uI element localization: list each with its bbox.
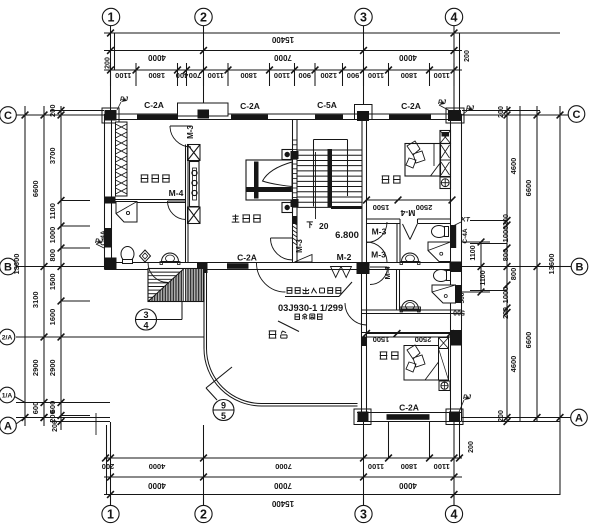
grid line B left [16,266,104,268]
extension stubs left inner chain [61,201,90,416]
svg-text:1100: 1100 [115,71,131,80]
svg-text:1800: 1800 [401,462,418,471]
svg-text:2: 2 [200,10,207,24]
grid line A right [462,418,571,422]
door M-3 dressing top [170,126,191,147]
door M-3 to upper bath [367,222,388,243]
svg-text:200: 200 [498,410,505,422]
svg-text:3100: 3100 [31,291,40,308]
svg-text:800: 800 [48,249,57,262]
grid line A left [16,418,110,422]
svg-text:200: 200 [503,307,510,319]
wall left exterior (grid 1) [105,114,112,270]
column grid3-B [357,263,370,274]
svg-text:1000: 1000 [501,287,510,304]
stair center handrail [328,149,363,209]
door M-3 master to hall [271,238,293,260]
label C-4A left [100,230,107,245]
pilaster stair wall mid [293,216,298,224]
dimension texts right inner chain [498,106,518,422]
window C-2A top-2 [231,115,268,119]
svg-text:4000: 4000 [148,53,166,62]
stair railing outline [314,140,348,207]
grid extension lines bottom [96,413,460,505]
column grid4-B [450,262,462,273]
column grid3-A [358,412,369,423]
svg-text:A: A [575,413,583,425]
grid line C left [16,111,104,116]
detail bubble 3/4 with leader [136,302,183,331]
wall lower bedroom north [362,333,462,338]
wall top exterior (grid C) [105,114,462,120]
svg-text:700: 700 [189,71,202,80]
pilaster bedroom NW [362,337,367,347]
svg-text:6600: 6600 [31,180,40,197]
door M-3 to upper bed2 [367,242,388,263]
grid bubble 2 bottom [195,495,212,523]
svg-text:1: 1 [107,507,114,521]
hatch stair west wall [293,140,298,245]
svg-text:6600: 6600 [524,180,533,197]
door terrace to lower lobby [345,303,367,325]
svg-text:C-2A: C-2A [144,100,164,110]
column grid4-C [448,110,461,121]
svg-text:800: 800 [501,249,510,262]
dimension ticks right inner chain [504,107,511,425]
closet unit between flues [190,162,200,207]
shower lower bath [432,285,456,303]
grid bubble 2 top [195,8,212,25]
svg-text:200: 200 [468,441,475,453]
dimension texts top small row [107,63,457,86]
door M-4 lower bath [370,267,388,285]
flag PJ top-right-2 [462,105,474,115]
svg-text:1500: 1500 [373,335,390,344]
grid line 1/A left [16,402,110,404]
dimension texts left middle chain [31,112,47,421]
svg-text:1800: 1800 [148,71,165,80]
svg-text:1800: 1800 [401,71,418,80]
svg-text:1100: 1100 [368,71,384,80]
svg-text:M-2: M-2 [337,252,352,262]
toilet lower bath right [434,270,451,282]
grid line 2/A left [16,336,204,338]
wardrobe hatched [116,122,128,196]
svg-text:9: 9 [221,401,226,411]
wall west of right-lower block [362,270,367,413]
grid bubble 3 top [355,8,372,25]
svg-text:M-4: M-4 [400,208,415,218]
svg-text:7000: 7000 [274,53,292,62]
svg-text:200: 200 [52,420,59,432]
label M-3 bath upper [372,227,387,237]
flue duct upper (X box) [188,145,201,161]
window C-5A top [315,115,343,119]
svg-text:C: C [573,109,581,121]
svg-text:A: A [4,421,12,433]
grid bubble 4 top [445,8,462,25]
label bedroom lower right [380,352,399,359]
nightstand master upper [282,150,293,160]
grid line 1 extension top [111,26,115,114]
svg-text:1600: 1600 [48,309,57,326]
svg-text:4: 4 [143,321,148,331]
grid bubble C left [0,107,16,124]
label C-2A B wall [237,253,257,263]
column grid4-A [449,412,460,423]
terrace parapet curved edge [204,270,358,406]
label M-4 upper bath [400,208,415,218]
bed master [246,160,292,200]
window C-2A top-3 [389,115,431,119]
column grid1-B [105,258,117,270]
svg-text:13600: 13600 [12,254,21,275]
label KT right wall [453,217,471,227]
svg-text:3: 3 [360,507,367,521]
svg-text:1100: 1100 [470,245,477,260]
window C-2A bottom [387,414,430,420]
svg-text:200: 200 [48,104,57,117]
dimension 500 right wall [459,292,466,303]
svg-text:20: 20 [319,221,329,231]
pilaster left wall at bath [105,197,116,204]
cabinet upper-right [440,144,451,177]
svg-text:800: 800 [509,268,518,281]
grid bubble C right [568,106,585,123]
pilaster stair wall lower [291,199,299,207]
grid bubble 2/A left [0,329,15,345]
wall grid B horizontal [105,263,462,270]
door leaf hall-terrace [295,255,313,263]
svg-text:900: 900 [298,71,311,80]
svg-text:4600: 4600 [509,158,518,175]
label dressing room [141,175,170,182]
bay box around grid2-C [178,103,229,118]
svg-text:C-2A: C-2A [401,101,421,111]
flag PJ left-bath [95,238,104,248]
svg-text:1100: 1100 [274,71,290,80]
grid line B right [462,266,571,268]
dimension 200 top ends [105,50,472,69]
svg-text:1/A: 1/A [2,393,13,400]
svg-text:1100: 1100 [480,270,487,285]
sink lower-left bath [160,253,180,265]
svg-text:1500: 1500 [48,273,57,290]
wall dressing-bath partition [105,200,186,203]
shower upper bath [428,242,451,262]
svg-text:KT: KT [461,217,471,224]
dimension text 15400 top [107,30,457,44]
door M-4 upper bath [403,224,418,240]
svg-text:1500: 1500 [373,203,390,212]
label bedroom upper right [382,176,401,183]
dimension texts bottom middle row [107,474,457,490]
grid line 4 extension top [454,26,460,114]
svg-text:3700: 3700 [48,147,57,164]
column grid3-C [357,111,369,121]
svg-text:C-2A: C-2A [240,101,260,111]
door M-4 dressing-bath [168,201,187,220]
svg-text:2900: 2900 [48,359,57,376]
AC unit lower-right [439,381,450,391]
dimension text 13600 left [12,112,28,421]
wall lower bath south [362,310,462,314]
svg-text:1100: 1100 [434,462,450,471]
column outline grid3-A [354,409,371,425]
detail bubble 9/5 with leader [206,367,234,421]
svg-text:B: B [4,262,12,274]
sink counter lower bath [400,307,421,311]
svg-text:5: 5 [221,411,226,421]
window C-4A left wall [105,228,111,248]
svg-text:1000: 1000 [501,226,510,243]
window C-4A right lower [456,285,462,303]
column outline grid1-C [102,108,119,123]
svg-text:1: 1 [108,10,115,24]
flag PJ bottom-right [459,394,471,412]
svg-text:15400: 15400 [271,499,294,508]
grid bubble 1 top [102,8,119,25]
nightstand master lower [282,203,293,213]
grid bubble 1/A left [0,387,25,403]
svg-text:1200: 1200 [320,71,337,80]
svg-text:600: 600 [31,402,40,415]
column outline grid4-A [446,409,463,425]
toilet upper bath right [432,226,449,238]
dimension text 13600 right [547,112,563,421]
svg-text:900: 900 [347,71,360,80]
column grid2-C [198,110,210,119]
door roof-access left [257,263,286,292]
svg-text:4000: 4000 [399,481,417,490]
svg-text:6.800: 6.800 [335,230,359,241]
annotation roof access detail 03J930 [278,282,352,332]
grid line 3 extension top [363,26,365,105]
dimension texts left inner chain [48,104,64,424]
dimension chain lines left [25,106,61,430]
svg-text:2500: 2500 [416,203,433,212]
dimension 1100 1100 right of wall [462,239,490,296]
label M-3 bed upper [371,250,386,260]
grid bubble 3 bottom [355,495,372,523]
svg-text:C-2A: C-2A [237,253,257,263]
bay box around grid3-C [355,105,373,120]
label terrace [269,331,287,338]
wall right exterior (grid 4) [451,114,462,422]
level label 6.800 [335,230,359,241]
svg-text:3: 3 [143,310,148,320]
wall stair east [362,120,367,263]
svg-text:4000: 4000 [148,481,166,490]
shower lower-left bath [116,202,137,223]
svg-text:1000: 1000 [48,227,57,244]
svg-text:2/A: 2/A [2,335,13,342]
bed upper-right [405,141,441,176]
labels C-4A right [446,228,469,300]
svg-text:4: 4 [451,10,458,24]
dimension text 15400 bottom [107,491,457,508]
label master bedroom [232,214,261,222]
svg-text:3: 3 [360,10,367,24]
svg-text:1100: 1100 [48,203,57,219]
dimension texts bottom small row [102,441,475,471]
nightstand upper-right [440,131,451,144]
svg-text:15400: 15400 [271,35,294,44]
floor drain diamond [140,250,151,262]
AC unit upper-right [440,177,451,189]
svg-text:7000: 7000 [275,462,292,471]
svg-text:1100: 1100 [208,71,224,80]
window C-4A right upper [451,225,456,248]
exterior steps hatched [148,269,204,302]
wall stair west [293,120,298,263]
AC niche right wall [451,330,461,346]
svg-text:03J930-1 1/299: 03J930-1 1/299 [278,303,343,313]
dimension line top outer 15400 row [104,33,560,70]
grid bubble B left [0,258,16,275]
nightstand lower-right [439,338,449,349]
dimension texts top middle row 4000 7000 4000 [107,47,457,62]
svg-text:2500: 2500 [415,335,432,344]
window C-2A in B wall [227,263,249,269]
wall dressing-bedroom partition [186,145,189,263]
stair treads [297,150,362,207]
grid bubble B right [560,258,588,275]
grid bubble 1 bottom [102,495,119,523]
label M-4 dressing [169,188,184,198]
svg-text:7000: 7000 [274,481,292,490]
label M-2 hall [337,252,352,262]
svg-text:2: 2 [200,507,207,521]
svg-text:B: B [576,262,584,274]
svg-text:200: 200 [503,214,510,226]
svg-text:200: 200 [102,462,115,471]
stair label Xia20 [307,152,329,231]
grid bubble A right [571,409,588,426]
svg-text:200: 200 [464,50,471,62]
svg-text:13600: 13600 [547,254,556,275]
dimension chain lines right [507,106,560,495]
svg-text:1100: 1100 [368,462,384,471]
svg-text:C-2A: C-2A [399,403,419,413]
grid line C right [462,111,568,116]
sink lower bath [400,301,420,313]
svg-text:M-3: M-3 [186,125,195,139]
dimension texts right 6600 chain [524,112,540,421]
wall right bedroom south [367,219,451,224]
flue duct lower (X box) [188,207,201,224]
dimension lines bottom rows [104,458,560,495]
bed lower-right [404,345,439,380]
wall lower bath divider [397,270,400,311]
svg-text:C: C [4,110,12,122]
label M-3 dressing top [186,125,195,139]
svg-text:2900: 2900 [31,359,40,376]
svg-text:6600: 6600 [524,332,533,349]
extension stubs right [470,221,507,291]
toilet lower-left bath [121,247,134,264]
svg-text:1100: 1100 [434,71,450,80]
window labels top wall [144,100,421,111]
svg-text:4600: 4600 [509,356,518,373]
door entry to steps [148,263,168,283]
svg-text:M-3: M-3 [295,239,304,253]
svg-text:C-5A: C-5A [317,100,337,110]
svg-text:M-4: M-4 [169,188,184,198]
cabinet lower-right [439,349,449,381]
column outline grid4-C [446,108,464,123]
label M-3 master hall [295,239,304,253]
dimension 500 bottom right step [453,309,465,316]
column grid2-B [197,263,208,273]
wall grid A bottom bedroom [357,413,462,422]
grid line 2 extension top [203,26,205,104]
svg-text:4000: 4000 [149,462,166,471]
interior dim 1500 2500 lower bedroom [363,330,454,344]
interior dim 1500 2500 upper bedroom [363,197,455,212]
grid bubble 4 bottom [445,495,462,523]
flag PJ top-left [117,96,128,110]
pilaster stair wall upper [291,151,299,159]
door M-2 double swing triangles [331,267,352,278]
label C-2A bottom [399,403,419,413]
window C-2A top-1 [137,115,178,119]
svg-text:C-4A: C-4A [462,228,469,243]
sink upper bath [400,253,420,265]
svg-text:200: 200 [498,106,505,118]
svg-text:4000: 4000 [399,53,417,62]
svg-text:1800: 1800 [240,71,257,80]
flag PJ top-right-1 [438,99,452,112]
label M-4 lower bath [383,266,392,280]
dimension 200 left bottom [52,420,59,432]
wall upper bath divider [397,224,400,263]
column grid1-C [105,110,117,121]
grid bubble A left [0,417,25,434]
svg-text:4: 4 [451,507,458,521]
